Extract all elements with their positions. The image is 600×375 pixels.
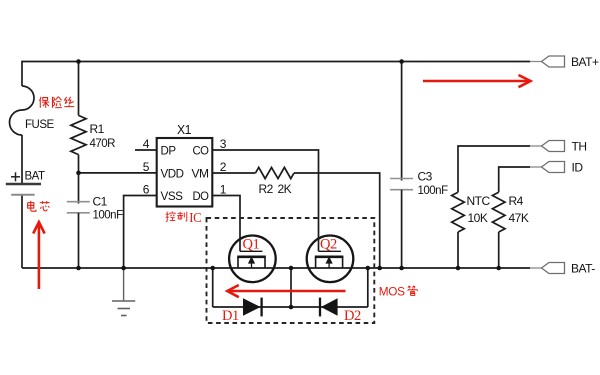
svg-text:C1: C1 [93, 195, 108, 209]
red arrow charge current (up, at cell) [33, 222, 44, 289]
fuse FUSE [10, 86, 35, 135]
svg-text:DO: DO [193, 189, 209, 203]
diode D2 [320, 298, 338, 317]
capacitor C1 [67, 202, 90, 213]
wire diode row [213, 306, 368, 308]
svg-text:2: 2 [220, 160, 227, 174]
wire C3 bottom to rail [401, 190, 403, 268]
label 电芯 (battery cell, red CJK) [28, 201, 50, 211]
wire diode loop right [367, 268, 369, 307]
terminal BAT- [530, 263, 565, 274]
svg-text:10K: 10K [468, 211, 488, 225]
svg-text:BAT-: BAT- [571, 261, 595, 275]
wire DO pin 1 to Q1 gate [212, 196, 240, 252]
wire C1 bottom to rail [78, 213, 80, 268]
red arrow current through MOSFETs (left) [227, 285, 345, 297]
wire VM pin 2 to R2 [212, 172, 255, 174]
svg-text:5: 5 [143, 160, 150, 174]
capacitor C3 [390, 179, 413, 190]
ground [112, 268, 135, 316]
wire diode loop left [212, 268, 214, 307]
svg-text:VDD: VDD [161, 166, 185, 180]
svg-text:D1: D1 [222, 308, 239, 324]
wire CO pin 3 to Q2 gate [212, 150, 318, 251]
svg-text:C3: C3 [418, 169, 433, 183]
svg-text:R2: R2 [259, 182, 274, 196]
resistor R4 [492, 192, 505, 232]
diode D1 [243, 298, 262, 317]
transistor Q1 [229, 235, 276, 282]
svg-text:NTC: NTC [467, 194, 491, 208]
wire DP pin 4 stub [135, 149, 157, 151]
wire C3 branch from top rail [401, 62, 403, 181]
wire R1 branch from top rail [78, 62, 80, 116]
svg-text:BAT+: BAT+ [571, 55, 599, 69]
wire ID lead to R4 [499, 167, 530, 192]
label 保险丝 (fuse, red CJK) [40, 97, 75, 108]
wire NTC bottom to rail [457, 232, 459, 268]
IC X1 box [157, 138, 213, 207]
wire R4 bottom to rail [498, 232, 500, 268]
svg-text:ID: ID [572, 160, 584, 174]
wire battery negative to bottom rail [21, 196, 23, 269]
svg-text:FUSE: FUSE [25, 119, 55, 131]
wire VDD node to C1 top [78, 172, 80, 204]
wire R1 bottom to VDD node [78, 155, 80, 172]
wire VSS pin 6 to ground node [124, 196, 157, 269]
wire VDD pin 5 [79, 172, 157, 174]
MOSFET dashed enclosure [207, 218, 375, 323]
resistor NTC thermistor [452, 192, 465, 232]
svg-text:1: 1 [220, 183, 227, 197]
label 控制IC (control IC, red) [166, 211, 187, 221]
terminal ID [530, 162, 565, 173]
svg-text:4: 4 [143, 137, 150, 151]
svg-text:Q1: Q1 [243, 237, 260, 253]
svg-text:CO: CO [193, 143, 209, 157]
transistor Q2 [307, 235, 354, 282]
svg-text:R4: R4 [509, 194, 524, 208]
terminal BAT+ [530, 56, 565, 67]
wire bottom rail [22, 267, 530, 269]
svg-text:R1: R1 [90, 122, 105, 136]
svg-text:47K: 47K [509, 211, 529, 225]
svg-text:VSS: VSS [161, 189, 183, 203]
wire center tap Q1/Q2 common to diode row [290, 268, 292, 307]
svg-text:6: 6 [143, 183, 150, 197]
resistor R2 [256, 167, 295, 178]
svg-text:BAT: BAT [25, 171, 45, 183]
red arrow discharge current (right, to BAT+) [423, 75, 531, 87]
svg-text:100nF: 100nF [93, 210, 124, 222]
svg-text:MOS: MOS [379, 285, 405, 299]
svg-text:TH: TH [572, 139, 587, 153]
wire R2 to VM sense node on bottom rail [294, 173, 380, 268]
svg-text:VM: VM [192, 166, 210, 180]
svg-text:DP: DP [161, 143, 176, 157]
svg-text:470R: 470R [90, 138, 116, 150]
svg-text:3: 3 [220, 137, 227, 151]
svg-text:X1: X1 [177, 123, 192, 137]
svg-text:100nF: 100nF [418, 185, 449, 197]
wire top rail BAT+ net [21, 135, 23, 184]
svg-text:D2: D2 [344, 308, 361, 324]
svg-text:IC: IC [189, 210, 201, 225]
svg-text:2K: 2K [278, 182, 292, 196]
battery BAT 电芯 [6, 172, 41, 195]
svg-text:Q2: Q2 [320, 237, 337, 253]
terminal TH [530, 141, 565, 152]
wire TH lead to NTC [458, 146, 530, 192]
resistor R1 [71, 115, 86, 154]
